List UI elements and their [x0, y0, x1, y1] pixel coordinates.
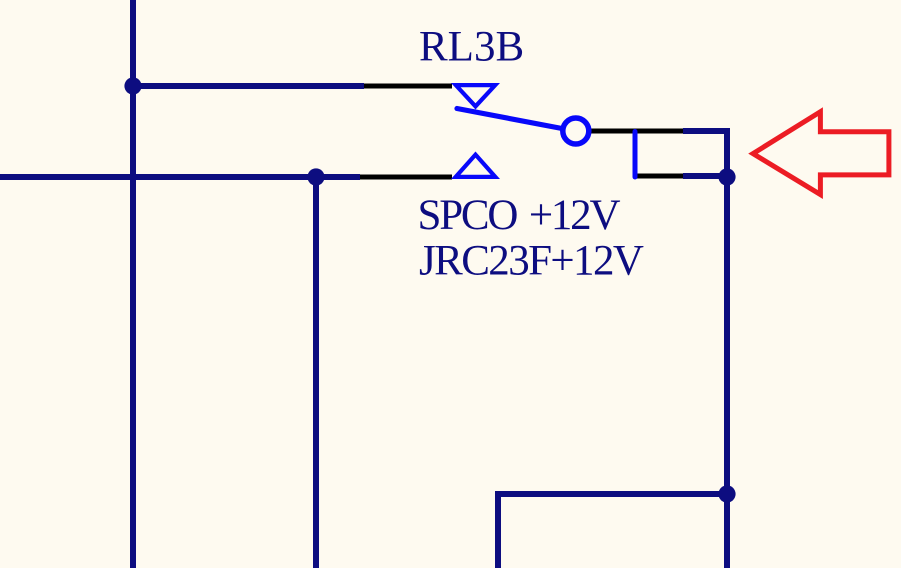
junction: at (133,86)	[124, 77, 141, 94]
annotation: red arrow pointing left	[753, 112, 889, 195]
wire: vertical from junction at (316,177) down	[313, 177, 319, 568]
svg-text:RL3B: RL3B	[419, 24, 524, 71]
wire: NC feed horizontal y=86	[133, 83, 364, 89]
wire: common top segment to right corner	[683, 131, 727, 177]
wire: horizontal bus y=177 from left edge	[0, 174, 360, 180]
svg-text:SPCO +12V: SPCO +12V	[418, 192, 621, 239]
relay RL3B: common pole circle	[563, 118, 589, 144]
pin: link pin lower (black)	[637, 174, 683, 179]
pin: relay COM pin (black)	[589, 129, 683, 134]
wire: lower right short horizontal y=176	[683, 173, 727, 179]
junction: at (727,177)	[718, 168, 735, 185]
pin: relay NO pin (black)	[360, 175, 452, 180]
junction: at (316,177)	[307, 168, 324, 185]
wire: right vertical bus down from junction	[724, 177, 730, 568]
relay RL3B: NO contact triangle (points up)	[451, 152, 500, 180]
svg-text:JRC23F+12V: JRC23F+12V	[419, 238, 644, 285]
wire: bottom horizontal y=494 with corner down at x=498	[498, 494, 727, 568]
pin: relay NC pin (black)	[364, 84, 452, 89]
wire: left bus vertical	[130, 0, 136, 568]
relay RL3B: switch arm	[457, 109, 562, 129]
junction: at (727,494)	[718, 485, 735, 502]
wire: blue vertical link segment	[633, 132, 638, 178]
relay RL3B: NC contact triangle (points down)	[451, 83, 500, 110]
